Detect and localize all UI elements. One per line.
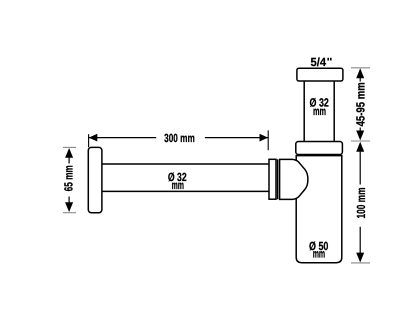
dimension 300 mm arrowhead right [260, 134, 269, 142]
svg-text:65 mm: 65 mm [61, 165, 75, 191]
svg-text:45-95 mm: 45-95 mm [353, 82, 367, 126]
horizontal pipe top wall [102, 163, 269, 165]
dimension 100 mm line upper segment [359, 150, 361, 184]
dimension 100 mm tick bottom [351, 262, 370, 264]
tailpiece pipe left wall [303, 81, 305, 142]
shared tick between 45-95 and 100 dimensions [351, 140, 370, 142]
svg-text:mm: mm [313, 104, 326, 118]
dimension 45-95 mm tick top [351, 67, 370, 69]
svg-text:100 mm: 100 mm [354, 187, 368, 218]
dimension 100 mm line lower segment [359, 227, 361, 255]
dimension 65 mm tick bottom [63, 212, 76, 214]
dimension 45-95 mm arrowhead down [356, 131, 364, 141]
dimension 65 mm arrowhead down [65, 202, 73, 212]
dimension 300 mm extension line right [267, 130, 269, 150]
inch mark tick 2 [330, 58, 332, 61]
tailpiece pipe right wall [333, 81, 335, 142]
wall flange [88, 147, 102, 212]
svg-text:5/4: 5/4 [311, 55, 327, 69]
dimension 45-95 mm arrowhead up [356, 68, 364, 78]
dimension 100 mm arrowhead up [356, 142, 364, 152]
dimension 65 mm arrowhead up [65, 148, 73, 158]
compression nut [269, 159, 276, 199]
svg-text:mm: mm [172, 178, 184, 192]
dimension 45-95 mm line lower stub [359, 128, 361, 132]
dimension 100 mm arrowhead down [356, 253, 364, 263]
dimension 300 mm arrowhead left [89, 134, 98, 142]
horizontal pipe bottom wall [102, 190, 269, 192]
svg-text:300 mm: 300 mm [164, 131, 195, 145]
trap body [296, 156, 342, 263]
compression ring line [277, 159, 279, 199]
dimension 65 mm line upper stub [68, 157, 70, 164]
inch mark tick 1 [327, 58, 329, 61]
dimension 65 mm tick top [63, 146, 76, 148]
tailpiece top flange [297, 68, 343, 81]
dimension 300 mm line right segment [205, 137, 268, 139]
dimension 65 mm line lower stub [68, 197, 70, 204]
dimension 300 mm line left segment [89, 137, 157, 139]
dimension 45-95 mm line upper stub [359, 77, 361, 82]
inlet elbow bulge [280, 159, 308, 199]
trap collar nut [296, 142, 343, 155]
dimension 300 mm extension line left [88, 134, 90, 147]
svg-text:mm: mm [313, 247, 325, 261]
